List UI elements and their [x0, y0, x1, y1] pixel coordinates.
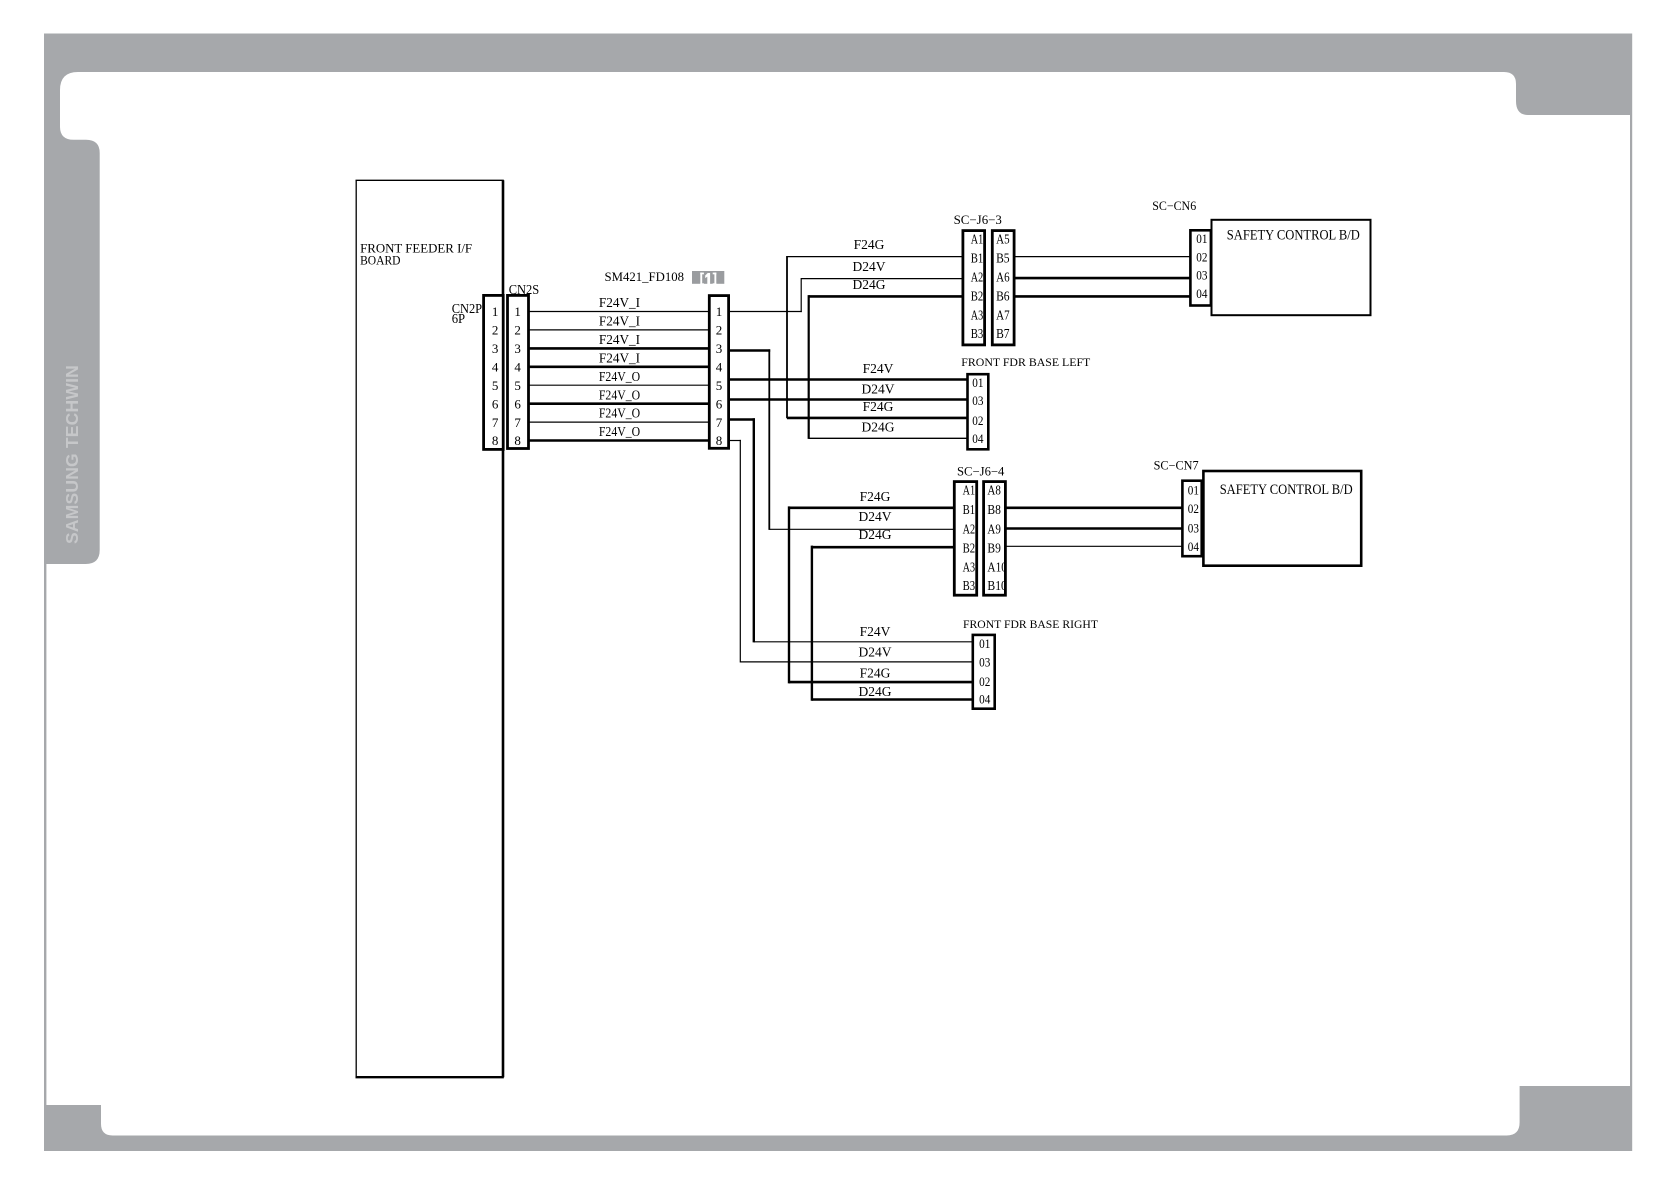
svg-text:D24V: D24V	[862, 381, 895, 396]
svg-text:3: 3	[492, 341, 499, 356]
svg-text:01: 01	[972, 376, 983, 390]
svg-text:4: 4	[514, 360, 521, 375]
wire F24V_I pin1 CN2S to SM421	[529, 311, 710, 313]
wire F24V_O pin6 CN2S to SM421	[529, 402, 710, 405]
wire riser pin3 D24V to SC-J6-4 A2	[768, 349, 770, 530]
svg-text:D24V: D24V	[859, 644, 892, 659]
svg-text:B1: B1	[963, 503, 976, 518]
svg-text:03: 03	[979, 656, 990, 670]
svg-text:3: 3	[716, 341, 723, 356]
svg-text:4: 4	[716, 360, 723, 375]
svg-text:02: 02	[1188, 502, 1199, 516]
svg-text:04: 04	[1196, 287, 1208, 301]
wire F24V_I pin2 CN2S to SM421	[529, 329, 710, 331]
svg-text:A7: A7	[996, 309, 1010, 324]
svg-text:F24G: F24G	[854, 237, 885, 252]
wire D24G to FRONT FDR BASE RIGHT 04	[812, 698, 973, 701]
svg-text:F24V_I: F24V_I	[599, 314, 641, 329]
svg-text:1: 1	[514, 304, 521, 319]
svg-text:A3: A3	[963, 561, 976, 576]
svg-text:A2: A2	[971, 271, 984, 286]
connector SC-J6-3 column B	[992, 231, 1014, 345]
wire A6 to SC-CN6 03	[1014, 277, 1191, 280]
svg-text:B1: B1	[971, 252, 984, 267]
connector SC-CN7	[1182, 481, 1201, 557]
wire SM421 pin1 to D24V riser	[729, 311, 802, 313]
svg-text:B2: B2	[963, 542, 976, 557]
svg-text:1: 1	[492, 304, 499, 319]
connector CN2S	[508, 295, 529, 448]
svg-text:01: 01	[979, 637, 990, 651]
svg-text:FRONT FDR BASE RIGHT: FRONT FDR BASE RIGHT	[963, 617, 1099, 631]
wire SM421 pin7 to riser	[729, 418, 755, 421]
wire riser D24G top	[808, 295, 810, 439]
svg-text:8: 8	[716, 433, 723, 448]
svg-text:F24V_O: F24V_O	[599, 424, 640, 439]
svg-text:5: 5	[716, 378, 723, 393]
wire F24G to FRONT FDR BASE LEFT 02	[787, 417, 968, 420]
svg-text:D24V: D24V	[859, 509, 892, 524]
wire A9 to SC-CN7 03	[1005, 527, 1182, 530]
svg-text:A9: A9	[987, 523, 1001, 538]
connector SM421_FD108	[709, 296, 728, 449]
svg-text:F24V_O: F24V_O	[599, 406, 640, 421]
svg-text:2: 2	[716, 323, 723, 338]
wire D24V to SC-J6-3 A2	[801, 278, 963, 280]
wire riser D24V to SC-J6-3 A2	[800, 278, 802, 312]
svg-text:6: 6	[492, 396, 499, 411]
svg-text:02: 02	[972, 414, 983, 428]
svg-text:A1: A1	[963, 484, 976, 499]
wire D24G to SC-J6-3 B2	[809, 295, 963, 298]
svg-text:BOARD: BOARD	[360, 253, 400, 268]
svg-text:01: 01	[1196, 232, 1207, 246]
svg-text:SC−CN6: SC−CN6	[1152, 199, 1196, 213]
svg-text:7: 7	[492, 415, 499, 430]
svg-text:SAFETY CONTROL B/D: SAFETY CONTROL B/D	[1220, 482, 1353, 498]
svg-text:8: 8	[492, 433, 499, 448]
connector SC-J6-3 column A	[963, 231, 985, 345]
svg-text:2: 2	[514, 323, 521, 338]
svg-text:B9: B9	[987, 542, 1001, 557]
svg-text:B7: B7	[996, 327, 1010, 342]
wire F24V_I pin4 CN2S to SM421	[529, 365, 710, 368]
svg-text:03: 03	[972, 394, 983, 408]
wire riser pin7 F24V to FRONT FDR BASE RIGHT 01	[753, 418, 755, 642]
wire riser D24G bottom	[811, 546, 813, 701]
svg-text:SAMSUNG TECHWIN: SAMSUNG TECHWIN	[62, 365, 82, 544]
svg-text:A1: A1	[971, 233, 984, 248]
connector SC-J6-4 column A	[954, 482, 976, 596]
wire B6 to SC-CN6 04	[1014, 295, 1191, 298]
svg-text:CN2S: CN2S	[509, 283, 540, 298]
wire F24V SM421 to FRONT FDR BASE LEFT 01	[729, 378, 968, 381]
svg-text:B8: B8	[987, 503, 1001, 518]
svg-text:7: 7	[716, 415, 723, 430]
connector SC-J6-4 column B	[984, 482, 1006, 596]
svg-text:FRONT FDR BASE LEFT: FRONT FDR BASE LEFT	[961, 355, 1091, 369]
svg-text:F24V_O: F24V_O	[599, 369, 640, 384]
svg-text:B3: B3	[971, 327, 984, 342]
wire F24G to SC-J6-4 B1	[789, 506, 954, 509]
svg-text:A6: A6	[996, 271, 1010, 286]
svg-text:SM421_FD108: SM421_FD108	[605, 269, 685, 284]
svg-text:SC−J6−3: SC−J6−3	[954, 213, 1002, 227]
svg-text:F24V_O: F24V_O	[599, 387, 640, 402]
svg-text:4: 4	[492, 360, 499, 375]
svg-text:D24G: D24G	[859, 527, 892, 542]
svg-text:3: 3	[514, 341, 521, 356]
wire F24V_O pin8 CN2S to SM421	[529, 439, 710, 442]
box SAFETY CONTROL B/D lower	[1203, 471, 1361, 566]
connector FRONT FDR BASE LEFT	[968, 374, 989, 449]
wire B9 to SC-CN7 04	[1005, 545, 1182, 547]
svg-text:F24G: F24G	[863, 399, 894, 414]
svg-text:B10: B10	[987, 579, 1007, 594]
svg-text:A5: A5	[996, 233, 1010, 248]
svg-text:B6: B6	[996, 290, 1010, 305]
svg-text:5: 5	[492, 378, 499, 393]
svg-text:1: 1	[716, 304, 723, 319]
wire D24G to SC-J6-4 B2	[812, 546, 954, 549]
svg-text:F24G: F24G	[860, 666, 891, 681]
svg-text:SAFETY CONTROL B/D: SAFETY CONTROL B/D	[1227, 227, 1360, 243]
svg-text:F24V_I: F24V_I	[599, 350, 641, 365]
svg-text:6: 6	[514, 396, 521, 411]
wire D24G to FRONT FDR BASE LEFT 04	[809, 437, 968, 439]
svg-text:B3: B3	[963, 579, 976, 594]
wire F24G to SC-J6-3 B1	[787, 256, 963, 258]
wire riser F24G top	[786, 256, 788, 418]
svg-text:A3: A3	[971, 309, 984, 324]
connector CN2P	[484, 295, 504, 449]
svg-text:04: 04	[972, 432, 984, 446]
board FRONT FEEDER I/F BOARD outline	[356, 180, 504, 1077]
wire riser pin8 D24V to FRONT FDR BASE RIGHT 03	[739, 440, 741, 663]
svg-text:A8: A8	[987, 484, 1001, 499]
badge [1]	[692, 271, 724, 284]
connector FRONT FDR BASE RIGHT	[973, 635, 995, 709]
svg-text:A2: A2	[963, 523, 976, 538]
wire F24V_O pin5 CN2S to SM421	[529, 384, 710, 386]
svg-text:F24V: F24V	[863, 361, 894, 376]
svg-text:B5: B5	[996, 252, 1010, 267]
svg-text:F24V_I: F24V_I	[599, 332, 641, 347]
svg-text:02: 02	[979, 675, 990, 689]
wire B5 to SC-CN6 02	[1014, 256, 1191, 258]
wire F24V_O pin7 CN2S to SM421	[529, 421, 710, 423]
svg-text:02: 02	[1196, 250, 1207, 264]
svg-text:B2: B2	[971, 290, 984, 305]
svg-text:6: 6	[716, 396, 723, 411]
svg-text:04: 04	[1188, 540, 1200, 554]
wire SM421 pin3 to riser	[729, 349, 771, 352]
box SAFETY CONTROL B/D upper	[1212, 220, 1371, 315]
wire F24G to FRONT FDR BASE RIGHT 02	[789, 681, 973, 684]
svg-text:04: 04	[979, 692, 991, 706]
wire B8 to SC-CN7 02	[1005, 506, 1182, 509]
svg-text:03: 03	[1196, 268, 1207, 282]
svg-text:2: 2	[492, 323, 499, 338]
svg-text:01: 01	[1188, 483, 1199, 497]
wire F24V_I pin3 CN2S to SM421	[529, 347, 710, 350]
svg-text:D24G: D24G	[853, 277, 886, 292]
wire F24V to FRONT FDR BASE RIGHT 01	[754, 641, 973, 643]
wire SM421 pin8 to riser	[729, 440, 741, 442]
wire D24V SM421 to FRONT FDR BASE LEFT 03	[729, 398, 968, 401]
svg-text:F24V_I: F24V_I	[599, 295, 641, 310]
svg-text:D24G: D24G	[862, 420, 895, 435]
svg-text:F24G: F24G	[860, 489, 891, 504]
svg-text:03: 03	[1188, 521, 1199, 535]
wire D24V to SC-J6-4 A2	[769, 528, 954, 530]
wire riser F24G bottom	[788, 506, 790, 683]
svg-text:D24G: D24G	[859, 684, 892, 699]
svg-text:8: 8	[514, 433, 521, 448]
svg-text:SC−J6−4: SC−J6−4	[957, 465, 1005, 479]
svg-text:SC−CN7: SC−CN7	[1154, 459, 1199, 473]
svg-text:F24V: F24V	[860, 624, 891, 639]
svg-text:5: 5	[514, 378, 521, 393]
svg-text:6P: 6P	[452, 312, 466, 327]
connector SC-CN6	[1190, 230, 1211, 305]
wire D24V to FRONT FDR BASE RIGHT 03	[740, 661, 973, 663]
svg-text:A10: A10	[987, 561, 1007, 576]
svg-text:D24V: D24V	[853, 259, 886, 274]
svg-text:7: 7	[514, 415, 521, 430]
